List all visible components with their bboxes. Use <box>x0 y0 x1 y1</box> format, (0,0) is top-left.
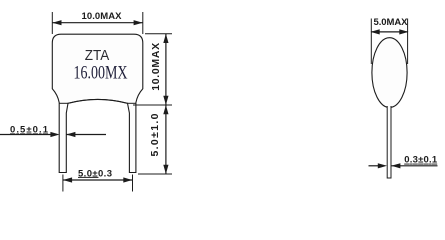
extension line right (top width dim) <box>142 12 144 34</box>
extension line left (thickness dim) <box>370 19 372 65</box>
extension line body-top right <box>145 33 172 35</box>
svg-text:ZTA: ZTA <box>85 47 110 64</box>
dimension line 5.0±0.3 lead spacing <box>63 179 133 181</box>
leader line right (lead diameter) <box>66 134 106 136</box>
arrowhead down (body height dim) <box>163 96 168 105</box>
arrowhead right (top width dim) <box>134 20 143 25</box>
leader line right (lead thickness) <box>391 165 437 167</box>
arrowhead down (lead length dim) <box>163 165 168 174</box>
arrowhead right (lead spacing dim) <box>123 177 132 182</box>
extension line right (thickness dim) <box>407 19 409 65</box>
arrowhead left (lead spacing dim) <box>63 177 72 182</box>
arrowhead up (body height dim) <box>163 34 168 43</box>
arrowhead up (lead length dim) <box>163 105 168 114</box>
body bottom arc <box>68 99 128 103</box>
underline of 5.0±0.3 <box>78 176 99 178</box>
extension line below left lead <box>62 175 64 192</box>
lead (side view) <box>387 106 391 178</box>
arrowhead right-pointing (lead thickness) <box>378 163 387 168</box>
extension line below right lead <box>132 175 134 192</box>
leader line left (lead thickness 0.3±0.1) <box>369 165 380 167</box>
svg-text:5.0MAX: 5.0MAX <box>374 17 409 28</box>
resonator body (side view) ellipse <box>372 38 407 108</box>
svg-text:10.0MAX: 10.0MAX <box>150 43 162 91</box>
dimension line 10.0MAX top <box>52 22 143 24</box>
body-lead shoulder right <box>128 102 136 104</box>
dimension line 5.0±1.0 vertical <box>165 105 167 174</box>
svg-text:0.5±0.1: 0.5±0.1 <box>10 124 49 135</box>
extension line body-bottom right <box>133 104 172 106</box>
arrowhead right-pointing (lead diameter) <box>50 132 59 137</box>
svg-text:5.0±1.0: 5.0±1.0 <box>149 113 161 156</box>
dimension line 5.0MAX <box>371 31 407 33</box>
body-lead shoulder left <box>59 102 68 104</box>
arrowhead left (thickness dim) <box>371 29 380 34</box>
leader line left (lead diameter 0.5±0.1) <box>0 134 52 136</box>
extension line left (top width dim) <box>51 12 53 34</box>
resonator body (front view) <box>52 34 143 172</box>
dimension line 10.0MAX vertical <box>165 34 167 105</box>
arrowhead right (thickness dim) <box>399 29 408 34</box>
extension line lead-bottom right <box>138 173 172 175</box>
svg-text:16.00MX: 16.00MX <box>74 63 128 83</box>
svg-text:10.0MAX: 10.0MAX <box>82 11 123 22</box>
arrowhead left (top width dim) <box>52 20 61 25</box>
svg-text:0.3±0.1: 0.3±0.1 <box>404 155 438 166</box>
arrowhead left-pointing (lead diameter) <box>66 132 75 137</box>
arrowhead left-pointing (lead thickness) <box>391 163 400 168</box>
